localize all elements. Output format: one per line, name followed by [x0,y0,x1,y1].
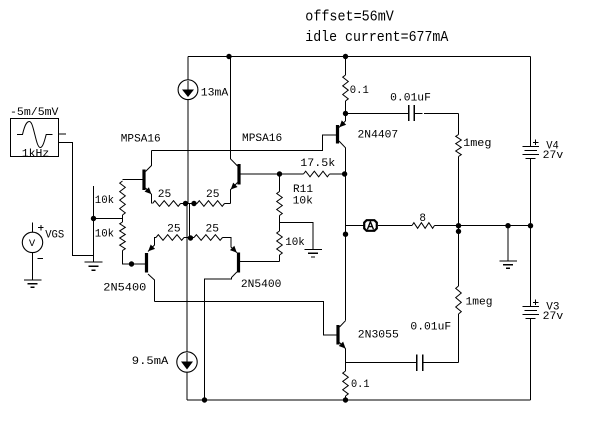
label R4 25 [206,189,220,201]
transistor Q4 2N5400 right [205,238,280,401]
svg-text:0.1: 0.1 [350,85,369,97]
label C2 0.01uF [410,322,451,334]
svg-text:25: 25 [206,224,220,236]
node lower tail [188,235,193,240]
battery V4 [522,57,539,308]
resistor R6 25 lower-right [191,235,223,241]
label R11 [293,184,313,196]
label Q2 MPSA16 [242,133,282,145]
wire output to ammeter [346,225,365,227]
svg-text:VGS: VGS [45,230,64,242]
svg-text:MPSA16: MPSA16 [242,133,282,145]
svg-text:1kHz: 1kHz [22,148,50,160]
capacitor C2 0.01uF bottom [346,355,459,371]
label -5m/5mV [10,107,59,119]
label R3 25 [158,189,172,201]
label R11 10k [293,195,314,207]
node Q5 emitter / C1 [343,111,348,116]
label 13mA [201,88,229,100]
wire Q3 collector to Q6 base [155,302,337,336]
ground G2 VGS [24,280,42,287]
resistor R14 0.1 bottom [343,363,349,401]
transistor Q3 2N5400 left [123,238,157,302]
wire divider branch [93,186,95,262]
label VGS [45,230,64,242]
label R10 1meg [463,138,491,150]
label R5 25 [167,224,181,236]
node bottom rail / 0.1 emitter resistor [343,397,348,402]
svg-text:0.01uF: 0.01uF [410,322,451,334]
svg-text:10k: 10k [95,195,115,207]
label Q3 2N5400 [103,282,146,294]
svg-text:8: 8 [419,213,426,225]
transistor Q2 MPSA16 right [231,57,280,204]
resistor R10 1meg top [456,114,462,226]
wire R11 junction to ground G3 [280,223,314,250]
svg-text:R11: R11 [293,184,313,196]
wire upper tail down to I2 [186,204,188,353]
svg-text:idle current=677mA: idle current=677mA [305,29,448,46]
label C1 0.01uF [390,93,431,105]
node ground tap [505,223,510,228]
current source I1 13mA [178,57,198,100]
resistor R12 8 load [412,223,459,229]
resistor R2 10k lower [120,219,145,265]
wire I2 to bottom rail [186,372,188,400]
ground G3 mid [304,250,322,258]
wire output column [345,174,347,321]
svg-text:1meg: 1meg [466,296,493,308]
label R2 10k [95,228,115,240]
resistor R8 17.5k [280,171,346,177]
wire upper tail crossbar [186,203,195,205]
svg-text:offset=56mV: offset=56mV [305,9,394,26]
node top rail / 0.1 resistor [343,54,348,59]
label R14 0.1 [351,379,370,391]
svg-text:0.01uF: 0.01uF [390,93,431,105]
svg-text:0.1: 0.1 [351,379,370,391]
label R1 10k [95,195,115,207]
resistor R4 25 upper-right [194,201,231,207]
resistor R1 10k upper [120,181,126,219]
battery V3 [522,300,539,401]
label 1kHz [22,148,50,160]
svg-text:2N5400: 2N5400 [103,282,146,294]
label R6 25 [206,224,220,236]
wire load row to supply rail [459,225,531,227]
svg-text:17.5k: 17.5k [300,158,335,170]
label Q4 2N5400 [241,279,282,291]
resistor R9 0.1 top [343,57,349,114]
ground G4 output [499,261,517,268]
svg-text:27v: 27v [543,311,564,323]
wire tail parallel link [189,204,191,239]
node Q2 base / R11 junction [277,171,282,176]
label 9.5mA [132,356,169,368]
svg-text:9.5mA: 9.5mA [132,356,169,368]
svg-text:1meg: 1meg [463,138,491,150]
current source I2 9.5mA [177,352,197,372]
voltage source VGS [22,223,43,281]
label R9 0.1 [350,85,369,97]
node output / feedback tap [343,232,348,237]
wire ground stub G4 [507,226,509,262]
svg-text:V: V [29,238,36,250]
label idle current=677mA [305,29,448,46]
label Q6 2N3055 [358,330,399,342]
label Q5 2N4407 [358,130,399,142]
svg-text:10k: 10k [95,228,115,240]
resistor R7 10k feedback-lower [277,223,283,262]
resistor R5 25 lower-left [156,235,191,241]
label V4 [546,141,559,153]
svg-text:2N4407: 2N4407 [358,130,399,142]
node load / 1meg top [456,223,461,228]
label V4 27v [543,150,564,162]
node upper tail left [183,201,188,206]
wire ammeter to load [378,225,412,227]
label R12 8 [419,213,426,225]
resistor R13 1meg bottom [456,226,462,363]
label R8 17.5k [300,158,335,170]
svg-text:2N5400: 2N5400 [241,279,282,291]
wire bottom negative rail [187,399,531,401]
node supply midpoint [528,223,533,228]
wire Q1 collector to Q5 base [152,135,337,151]
node upper tail right [191,201,196,206]
label V3 27v [543,311,564,323]
resistor R11 10k [277,174,283,223]
wire top positive rail [188,56,531,58]
label offset=56mV [305,9,394,26]
voltage source V1 sine 1kHz box [11,119,59,157]
node 17.5k / output line [342,171,347,176]
capacitor C1 0.01uF top [346,105,459,121]
svg-text:13mA: 13mA [201,88,229,100]
ground G1 input [85,262,103,270]
label V3 [546,301,559,313]
svg-text:MPSA16: MPSA16 [121,133,161,145]
svg-text:25: 25 [206,189,220,201]
svg-text:25: 25 [167,224,181,236]
svg-text:27v: 27v [543,150,564,162]
transistor Q1 MPSA16 left [123,151,152,204]
resistor R3 25 upper-left [153,201,186,207]
label R13 1meg [466,296,493,308]
node bottom rail / Q4 collector [202,397,207,402]
label R7 10k [285,237,305,249]
wire I1 to upper tail [187,100,189,204]
svg-text:-5m/5mV: -5m/5mV [10,107,59,119]
wire V1 output to ground [59,143,94,256]
wire tap to divider midpoint [94,218,123,220]
pin V1 plus stub [59,133,66,135]
svg-text:10k: 10k [293,195,314,207]
node load lower [456,229,461,234]
ammeter A1 [364,220,377,231]
node top rail / Q2 collector [226,54,231,59]
svg-text:25: 25 [158,189,172,201]
label Q1 MPSA16 [121,133,161,145]
transistor Q5 2N4407 [323,114,347,175]
node Q3 base junction [129,261,134,266]
svg-text:10k: 10k [285,237,305,249]
node divider tap [91,216,96,221]
svg-text:2N3055: 2N3055 [358,330,399,342]
transistor Q6 2N3055 [324,321,346,363]
